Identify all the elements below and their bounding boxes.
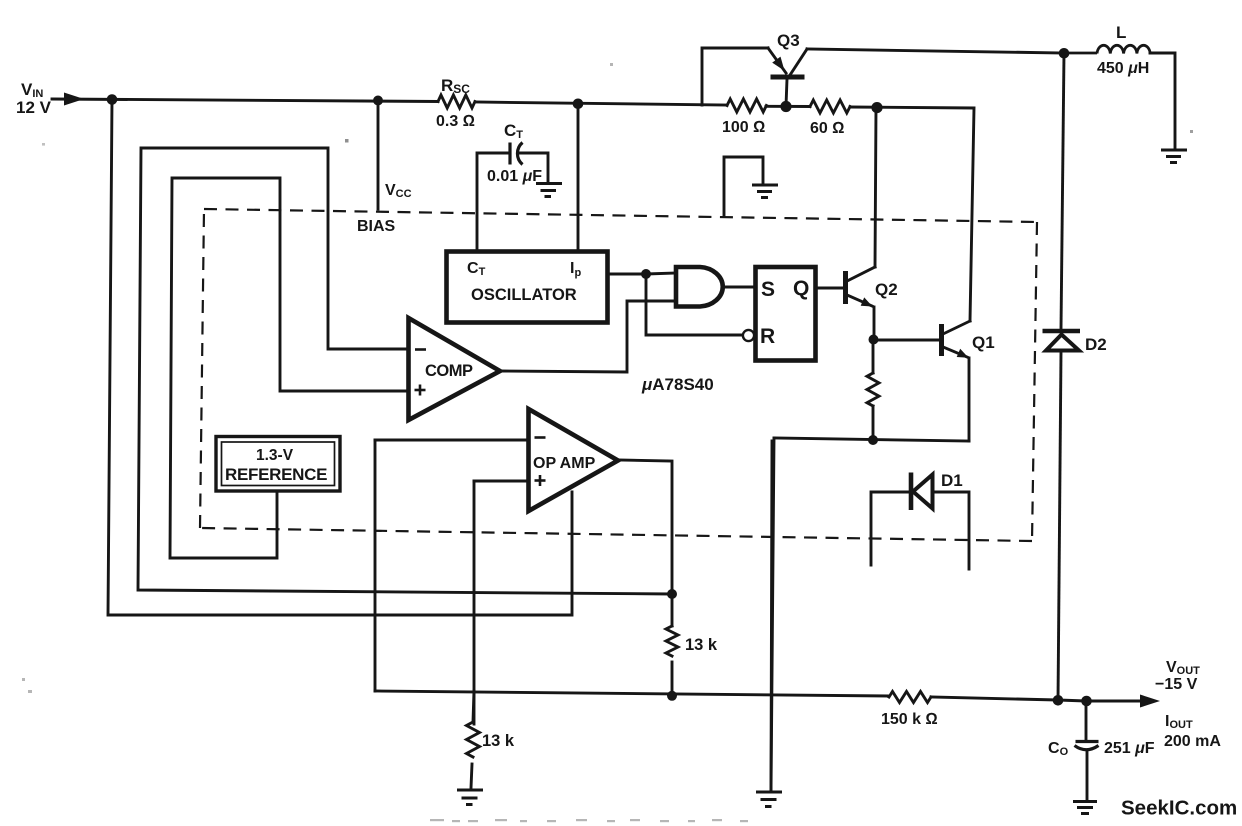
- svg-text:OSCILLATOR: OSCILLATOR: [471, 286, 577, 304]
- svg-text:1.3-V: 1.3-V: [256, 447, 294, 464]
- svg-text:VIN: VIN: [21, 80, 43, 100]
- svg-text:150 k Ω: 150 k Ω: [881, 711, 938, 728]
- svg-text:COMP: COMP: [425, 362, 473, 380]
- svg-text:REFERENCE: REFERENCE: [225, 465, 327, 484]
- svg-text:100 Ω: 100 Ω: [722, 119, 765, 136]
- svg-text:μA78S40: μA78S40: [641, 375, 714, 394]
- svg-text:BIAS: BIAS: [357, 218, 396, 235]
- svg-text:0.01 μF: 0.01 μF: [487, 168, 542, 185]
- svg-text:OP AMP: OP AMP: [533, 455, 596, 472]
- svg-text:13 k: 13 k: [482, 732, 515, 750]
- svg-text:L: L: [1116, 23, 1126, 42]
- svg-text:−15 V: −15 V: [1155, 676, 1198, 693]
- svg-text:CT: CT: [504, 121, 523, 141]
- svg-text:D1: D1: [941, 471, 963, 490]
- svg-text:Q2: Q2: [875, 280, 898, 299]
- svg-text:R: R: [760, 325, 775, 348]
- svg-text:Q3: Q3: [777, 31, 800, 50]
- svg-text:450 μH: 450 μH: [1097, 60, 1149, 77]
- svg-text:S: S: [761, 278, 775, 301]
- svg-text:IOUT: IOUT: [1165, 713, 1193, 731]
- svg-text:RSC: RSC: [441, 76, 470, 96]
- svg-text:Q: Q: [793, 277, 809, 300]
- svg-text:CO: CO: [1048, 740, 1069, 758]
- svg-text:12 V: 12 V: [16, 98, 52, 117]
- svg-text:SeekIC.com: SeekIC.com: [1121, 797, 1237, 820]
- svg-text:0.3 Ω: 0.3 Ω: [436, 113, 475, 130]
- svg-text:200 mA: 200 mA: [1164, 733, 1221, 750]
- svg-text:13 k: 13 k: [685, 636, 718, 654]
- svg-text:VCC: VCC: [385, 182, 412, 200]
- svg-text:D2: D2: [1085, 335, 1107, 354]
- svg-text:VOUT: VOUT: [1166, 659, 1200, 677]
- svg-text:60 Ω: 60 Ω: [810, 120, 845, 137]
- svg-text:251 μF: 251 μF: [1104, 740, 1155, 757]
- svg-text:Q1: Q1: [972, 333, 995, 352]
